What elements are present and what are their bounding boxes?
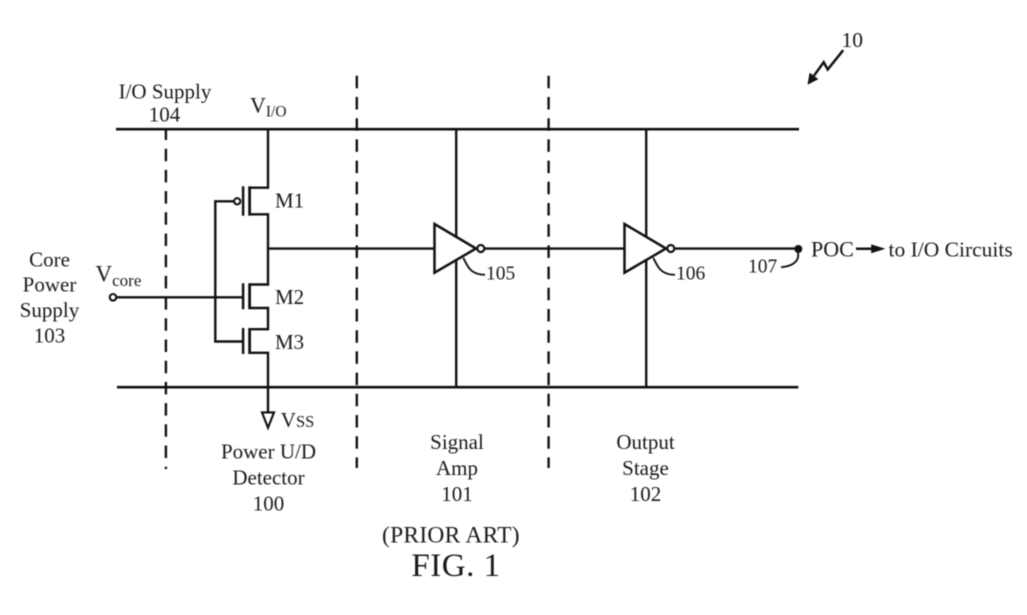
- svg-text:VI/O: VI/O: [250, 92, 287, 120]
- svg-text:(PRIOR ART): (PRIOR ART): [382, 522, 520, 548]
- svg-text:103: 103: [34, 324, 66, 348]
- inverter U105 output bubble: [477, 245, 484, 252]
- svg-text:Stage: Stage: [622, 456, 669, 480]
- leader curve for label 107: [781, 253, 798, 267]
- boundary dashed line 104 (left): [165, 131, 167, 470]
- svg-text:Output: Output: [616, 430, 675, 454]
- svg-text:M1: M1: [275, 188, 304, 212]
- svg-text:Signal: Signal: [430, 430, 484, 454]
- svg-text:Core: Core: [29, 247, 70, 271]
- node 107 junction dot: [794, 245, 802, 253]
- wire: M1 drain down through output node to M2 drain: [250, 214, 268, 284]
- transistor M2 (NMOS) channel bar: [248, 283, 251, 309]
- svg-text:105: 105: [486, 264, 515, 285]
- wire: M2 source to M3 drain: [250, 308, 268, 329]
- leader curve for label 105: [463, 258, 485, 275]
- wire: inverter 106 output to node 107: [675, 247, 798, 249]
- svg-text:Power U/D: Power U/D: [221, 439, 316, 463]
- boundary dashed line between detector 100 and signal amp 101: [356, 76, 358, 468]
- wire: main drain chain vertical at x=268 from top rail to M1: [250, 129, 268, 188]
- inverter U106 output bubble: [667, 245, 674, 252]
- wire: Vcore to M2 gate: [117, 296, 244, 298]
- wire: vertical rail through inverter 106: [645, 129, 647, 387]
- svg-text:I/O Supply: I/O Supply: [119, 79, 212, 103]
- svg-text:Vcore: Vcore: [96, 261, 142, 290]
- svg-text:Power: Power: [23, 273, 77, 297]
- svg-text:M3: M3: [275, 330, 304, 354]
- Vcore input terminal (open circle): [110, 294, 117, 301]
- POC output arrow: [856, 248, 873, 251]
- boundary dashed line between signal amp 101 and output stage 102: [547, 76, 549, 468]
- inverter U105 triangle: [435, 224, 477, 273]
- transistor M2 gate bar: [242, 283, 245, 309]
- wire: M3 source down through bottom rail to Vss arrow: [250, 353, 268, 413]
- svg-text:to I/O Circuits: to I/O Circuits: [889, 238, 1013, 262]
- inverter U106 triangle: [625, 224, 667, 273]
- transistor M1 gate bubble: [234, 198, 240, 204]
- svg-text:POC: POC: [811, 237, 854, 262]
- transistor M1 (PMOS) channel bar: [248, 186, 251, 215]
- svg-text:Supply: Supply: [20, 298, 80, 322]
- svg-text:M2: M2: [275, 285, 304, 309]
- svg-text:102: 102: [630, 482, 662, 506]
- Vss rail (bottom horizontal wire): [117, 386, 798, 389]
- svg-text:Detector: Detector: [232, 465, 304, 489]
- svg-text:10: 10: [842, 28, 864, 52]
- wire: inverter 105 output to inverter 106 input: [485, 247, 625, 249]
- leader curve for label 106: [653, 258, 675, 275]
- wire: vertical rail through inverter 105: [455, 129, 457, 387]
- svg-text:106: 106: [676, 264, 706, 285]
- svg-text:101: 101: [441, 482, 473, 506]
- svg-text:FIG. 1: FIG. 1: [411, 548, 500, 584]
- I/O supply rail V_I/O (top horizontal wire): [116, 128, 799, 131]
- wire: gate tie from M1 bubble down to M3 gate: [215, 201, 243, 341]
- wire: output node to inverter 105 input: [268, 247, 435, 249]
- svg-text:107: 107: [748, 257, 778, 278]
- transistor M3 gate bar: [242, 328, 245, 354]
- transistor M3 (NMOS) channel bar: [248, 328, 251, 354]
- reference numeral 10 zigzag leader arrow: [814, 50, 843, 75]
- transistor M1 gate bar: [242, 186, 245, 215]
- Vss ground arrow (open arrowhead): [262, 412, 274, 427]
- svg-text:104: 104: [149, 103, 181, 127]
- svg-text:VSS: VSS: [281, 408, 315, 432]
- svg-text:Amp: Amp: [436, 456, 478, 480]
- svg-text:100: 100: [253, 492, 285, 516]
